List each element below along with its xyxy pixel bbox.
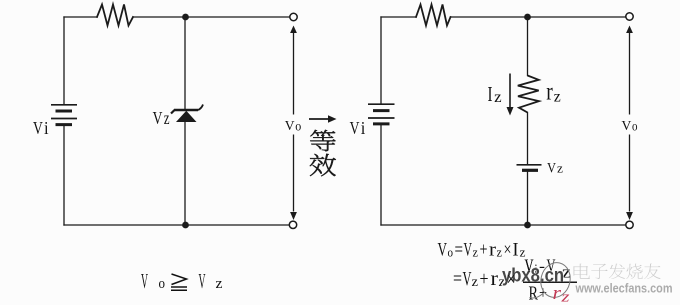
svg-text:o: o [632,118,638,133]
svg-text:=: = [455,240,464,261]
svg-text:r: r [491,268,499,290]
terminal top output (left circuit) [290,13,297,20]
resistor R series (right circuit) [416,5,451,26]
wire left branch lower (left circuit) [63,126,65,225]
wire top-right segment (right circuit) [451,16,627,18]
wire middle branch upper (right circuit) [527,17,529,76]
zener diode Vz (left circuit) [171,105,203,123]
terminal bottom output (right circuit) [626,221,633,228]
resistor rz (zener dynamic resistance, right circuit) [518,76,539,113]
wire Vo lower (left circuit) [293,135,295,212]
label Iz (zener current) [488,82,502,106]
formula fraction denominator R+rz [529,283,548,305]
svg-text:z: z [560,290,570,305]
svg-text:V: V [525,256,534,277]
label rz (resistor value) [546,78,561,105]
watermark ybx8.cn ellipse orbit [530,260,574,301]
arrow down Vo (left circuit) [290,212,297,220]
formula overdraw: multiplication sign, numerator head, fraction bar [507,256,578,291]
svg-text:I: I [488,82,493,106]
svg-text:z: z [497,245,503,260]
svg-text:o: o [448,245,454,260]
watermark elecfans logo text [573,264,660,279]
svg-text:www.elecfans.com: www.elecfans.com [575,282,673,296]
svg-text:i: i [361,118,366,138]
wire middle branch lower (right circuit) [527,172,529,226]
arrow up Vo (right circuit) [626,26,633,34]
svg-text:z: z [557,161,563,176]
svg-text:V: V [350,118,360,138]
wire left branch upper (right circuit) [380,17,382,104]
label Vi (left battery value) [33,118,49,138]
svg-text:z: z [164,108,170,128]
wire left branch lower (right circuit) [380,126,382,226]
svg-text:V: V [285,118,295,133]
wire zener branch lower (left circuit) [184,122,186,225]
wire Vo lower (right circuit) [629,135,631,212]
terminal bottom output (left circuit) [289,221,296,228]
junction node dot bottom (left circuit) [182,222,189,229]
wire middle branch between rz and Vz (right circuit) [527,113,529,165]
svg-text:V: V [463,268,472,290]
svg-text:V: V [153,108,163,128]
svg-text:z: z [554,88,561,105]
svg-text:×: × [507,269,516,291]
wire top-left segment (right circuit) [381,16,416,18]
junction node dot top (right circuit) [524,14,531,21]
formula fraction bar [523,281,577,283]
svg-text:V: V [141,269,148,293]
wire left branch upper (left circuit) [63,17,65,104]
label Vi (right battery value) [350,118,366,138]
svg-text:z: z [472,274,479,289]
svg-text:i: i [44,118,49,138]
arrow down Vo (right circuit) [626,212,633,220]
svg-text:+: + [480,240,488,261]
svg-text:z: z [473,245,479,260]
equivalence arrow [309,115,337,123]
formula fraction numerator Vi-Vz [525,256,572,282]
label Vz (battery value, right circuit) [547,160,563,176]
terminal top output (right circuit) [626,13,633,20]
label Vo (left output voltage) [285,118,302,133]
svg-text:V: V [547,160,556,176]
junction node dot bottom (right circuit) [524,222,531,229]
svg-text:=: = [453,268,462,290]
svg-text:z: z [494,89,502,106]
wire top-left segment (left circuit) [64,16,97,18]
label Vz (left zener value) [153,108,170,128]
label Vo (right output voltage) [622,118,638,133]
wire Vo upper (left circuit) [293,32,295,115]
svg-text:V: V [438,240,448,261]
wire bottom (right circuit) [381,224,626,226]
svg-text:z: z [216,276,223,292]
svg-text:V: V [464,240,473,261]
svg-text:o: o [159,276,166,292]
svg-text:V: V [622,118,632,133]
junction node dot top (left circuit) [182,14,189,21]
current arrow Iz (right circuit) [507,74,514,116]
caption V o >= V z (left circuit condition) [141,269,223,293]
arrow up Vo (left circuit) [290,26,297,34]
resistor R series (left circuit) [97,5,133,26]
label dengxiao (equivalent) char 2 [310,154,336,176]
battery Vi (left circuit) [51,105,77,125]
svg-text:I: I [513,240,519,261]
svg-text:r: r [553,283,562,304]
wire top-right segment to output (left circuit) [133,16,290,18]
svg-text:×: × [504,240,512,261]
formula line 2: = Vz + rz x (fraction) [453,268,516,291]
formula line 1: Vo = Vz + rz x Iz [438,240,526,261]
svg-text:r: r [546,78,553,105]
battery Vi (right circuit) [368,104,395,124]
battery Vz (equivalent zener voltage source, right circuit) [517,165,542,171]
svg-text:o: o [295,118,301,133]
svg-text:+: + [480,268,489,290]
wire Vo upper (right circuit) [629,32,631,115]
svg-text:V: V [199,269,206,293]
wire bottom (left circuit) [64,224,290,226]
formula denominator rz (red) [553,283,570,305]
wire zener branch upper (left circuit) [184,17,186,110]
label dengxiao (equivalent) char 1 [310,130,335,151]
svg-text:V: V [33,118,43,138]
